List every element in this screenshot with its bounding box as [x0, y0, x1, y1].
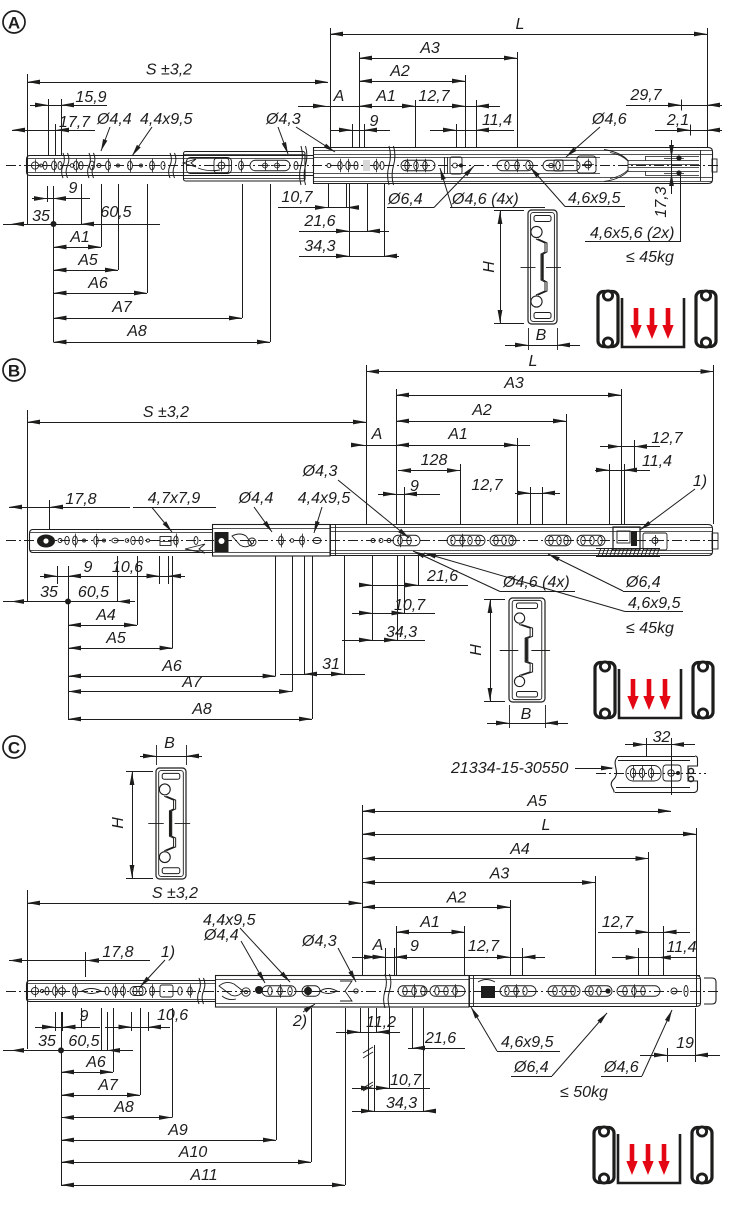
dimension 34,3 (B): [342, 640, 425, 642]
dimension 11,4 (B right): [595, 470, 650, 472]
dimension B (B): [509, 705, 511, 728]
svg-text:Ø4,3: Ø4,3: [302, 463, 338, 480]
dimension 21,6 (C): [408, 1048, 465, 1050]
dimension 11,4 (A): [430, 130, 514, 132]
svg-text:≤ 45kg: ≤ 45kg: [626, 620, 674, 637]
svg-text:35: 35: [38, 1033, 56, 1050]
dimension A8 (B): [68, 719, 312, 721]
svg-text:Ø4,6 (4x): Ø4,6 (4x): [451, 191, 519, 208]
svg-text:2): 2): [292, 1013, 307, 1030]
dimension 11,4 (C right): [612, 957, 697, 959]
rail B middle latch block: [215, 532, 229, 552]
svg-text:10,7: 10,7: [281, 189, 313, 206]
dimension A11 (C): [61, 1185, 345, 1187]
rail C outer slots: [500, 986, 536, 997]
rail C chevron detail: [340, 981, 352, 1001]
dimension H (C): [126, 771, 153, 773]
rail A inner member: [27, 156, 314, 176]
svg-text:21,6: 21,6: [424, 1030, 456, 1047]
svg-text:H: H: [468, 644, 485, 656]
rail B latch wedge: [185, 544, 205, 553]
svg-text:Ø4,3: Ø4,3: [301, 933, 337, 950]
svg-text:A7: A7: [111, 299, 133, 316]
svg-text:19: 19: [676, 1035, 694, 1052]
rail A right spear detail: [604, 150, 628, 182]
extension lines from holes (C): [81, 1008, 83, 1027]
dimension A1 (C): [396, 932, 465, 934]
rail A middle member: [184, 152, 306, 182]
dimension A2 (B): [396, 421, 566, 423]
dimension B (A): [528, 328, 530, 350]
svg-text:B: B: [521, 706, 532, 723]
dimension 10,7 (B): [352, 613, 435, 615]
dimension H (A): [494, 210, 524, 212]
section label C: [3, 736, 25, 758]
rail A outer-member break: [300, 146, 303, 185]
dimension A4 (B): [68, 625, 137, 627]
dimension 17,3 (A): [671, 140, 673, 194]
cross-section view (A): [528, 210, 557, 324]
rail B outer holes: [371, 539, 375, 543]
dimension A4 (C): [362, 858, 649, 860]
svg-text:A1: A1: [69, 229, 90, 246]
rail A inner holes: [31, 162, 38, 169]
svg-text:Ø4,6: Ø4,6: [603, 1059, 639, 1076]
dimension 15,9 (A): [30, 105, 107, 107]
section label A: [3, 11, 25, 33]
svg-text:C: C: [8, 739, 20, 758]
svg-text:L: L: [529, 353, 538, 370]
dimension A7 (C): [61, 1095, 140, 1097]
dimension 31 (B): [280, 674, 365, 676]
svg-text:Ø4,4: Ø4,4: [96, 111, 132, 128]
dimension 32 (C): [625, 744, 695, 746]
dimension A5 (C): [362, 805, 364, 975]
svg-text:4,4x9,5: 4,4x9,5: [140, 111, 193, 128]
svg-text:4,6x9,5: 4,6x9,5: [501, 1034, 554, 1051]
svg-text:B: B: [164, 735, 175, 752]
svg-text:21,6: 21,6: [303, 213, 335, 230]
svg-text:9: 9: [80, 1008, 89, 1025]
rail C middle lever detail: [219, 982, 243, 996]
svg-text:12,7: 12,7: [651, 430, 683, 447]
rail B left end detail: [37, 535, 55, 548]
svg-text:Ø4,6: Ø4,6: [591, 111, 627, 128]
svg-text:34,3: 34,3: [304, 238, 335, 255]
svg-text:L: L: [516, 16, 525, 33]
dimension row A / 9 / 12,7 (C): [352, 957, 545, 959]
svg-text:A2: A2: [389, 63, 410, 80]
rail C middle break: [384, 974, 387, 1008]
cross-section view (C): [156, 768, 186, 879]
svg-text:9: 9: [410, 938, 419, 955]
svg-text:11,2: 11,2: [366, 1014, 396, 1031]
dimension S +-3,2 (B): [27, 410, 29, 602]
svg-text:31: 31: [322, 656, 340, 673]
svg-text:32: 32: [653, 729, 671, 746]
rail B outer member: [331, 525, 713, 556]
svg-text:10,7: 10,7: [394, 597, 426, 614]
svg-text:60,5: 60,5: [100, 204, 131, 221]
rail A middle details: [187, 158, 232, 174]
dimension 21,6 (B): [362, 585, 468, 587]
dimension A2 (A): [359, 81, 465, 83]
section label B: [3, 359, 25, 381]
rail A end tab: [712, 159, 717, 172]
rail A outer holes group 1: [327, 164, 331, 168]
svg-text:A11: A11: [189, 1167, 217, 1184]
svg-text:A5: A5: [105, 630, 126, 647]
dimension L (A): [330, 28, 332, 147]
dimension 34,3 (A): [299, 256, 399, 258]
svg-text:11,4: 11,4: [667, 939, 697, 956]
rail C end clip: [704, 978, 716, 1004]
dimension A8 (C): [61, 1117, 172, 1119]
svg-text:10,7: 10,7: [390, 1072, 422, 1089]
rail C outer member: [469, 975, 700, 977]
dimension 21,6 (A): [299, 231, 389, 233]
dimension 10,7 (A): [278, 207, 359, 209]
svg-text:2,1: 2,1: [666, 112, 689, 129]
load direction icon (A): [598, 292, 618, 347]
svg-text:A: A: [8, 14, 20, 33]
svg-text:9: 9: [370, 113, 379, 130]
rail A release lever detail: [577, 156, 596, 173]
rail B inner member: [30, 530, 213, 553]
dimension row A / A1 (B): [355, 445, 530, 447]
dimension 35 / 60,5 (C): [3, 1050, 133, 1052]
dimension H (B): [484, 599, 505, 601]
extension line with breaks (C): [368, 1008, 370, 1111]
dimension 9 (B top): [378, 494, 440, 496]
dimension 12,7 (B mid): [515, 493, 560, 495]
svg-text:A4: A4: [95, 607, 116, 624]
svg-text:4,6x9,5: 4,6x9,5: [628, 595, 681, 612]
dimension A5 (A): [54, 270, 119, 272]
svg-text:A8: A8: [126, 323, 147, 340]
dimension A2 (C): [362, 907, 510, 909]
dimension 9 (C bottom): [35, 1027, 100, 1029]
svg-text:12,7: 12,7: [602, 914, 634, 931]
svg-text:4,7x7,9: 4,7x7,9: [148, 490, 201, 507]
dimension 2,1 (A): [655, 130, 722, 132]
rail A outer member: [314, 148, 713, 184]
dimension A10 (C): [61, 1162, 311, 1164]
svg-text:21,6: 21,6: [426, 568, 458, 585]
svg-text:Ø4,3: Ø4,3: [265, 111, 301, 128]
svg-text:A: A: [333, 88, 345, 105]
dimension 29,7 (A): [626, 105, 722, 107]
part detail rail (C): [596, 773, 706, 775]
svg-text:S ±3,2: S ±3,2: [146, 62, 192, 79]
rail B end piece: [643, 533, 667, 550]
rail C inner break: [198, 978, 201, 1004]
dimension A3 (A): [359, 52, 361, 147]
svg-text:17,8: 17,8: [65, 491, 96, 508]
rail A hole cluster: [444, 157, 446, 174]
svg-text:4,6x9,5: 4,6x9,5: [568, 190, 621, 207]
label 17,8 (B): [9, 507, 130, 509]
rail B middle member: [213, 525, 331, 557]
svg-text:A1: A1: [419, 914, 440, 931]
dimension 35 / 60,5 (A): [3, 224, 160, 226]
svg-text:1): 1): [693, 473, 707, 490]
dimension 19 (C): [640, 1055, 720, 1057]
dimension A6 (C): [61, 1072, 113, 1074]
dimension 34,3 (C): [352, 1111, 430, 1113]
svg-text:A7: A7: [97, 1077, 119, 1094]
dimension 9 / 10,6 (B): [40, 576, 185, 578]
dimension L (C): [362, 834, 696, 836]
dimension A5 (B): [68, 648, 173, 650]
dimension 9 (A bottom): [32, 198, 90, 200]
rail C inner member: [27, 981, 216, 1002]
svg-text:15,9: 15,9: [75, 89, 106, 106]
svg-text:17,8: 17,8: [102, 944, 133, 961]
dimension A6 (B): [68, 676, 276, 678]
dimension 35 / 60,5 (B): [3, 601, 135, 603]
dimension A7 (A): [54, 318, 243, 320]
svg-text:B: B: [8, 362, 20, 381]
svg-text:Ø6,4: Ø6,4: [513, 1059, 549, 1076]
svg-text:1): 1): [161, 944, 175, 961]
svg-text:A9: A9: [167, 1122, 188, 1139]
svg-text:B: B: [536, 327, 547, 344]
svg-text:A6: A6: [85, 1054, 106, 1071]
svg-text:≤ 50kg: ≤ 50kg: [560, 1084, 608, 1101]
svg-text:L: L: [542, 817, 551, 834]
svg-text:A6: A6: [87, 275, 108, 292]
svg-text:60,5: 60,5: [78, 584, 109, 601]
svg-text:A3: A3: [503, 375, 524, 392]
svg-text:35: 35: [32, 208, 50, 225]
rail B latch box: [613, 527, 640, 550]
svg-text:Ø4,4: Ø4,4: [238, 490, 274, 507]
dimension A3 (C): [362, 882, 595, 884]
rail A inner break marks: [62, 153, 65, 178]
svg-text:12,7: 12,7: [471, 477, 503, 494]
svg-text:H: H: [110, 817, 127, 829]
dimension 11,2 (C): [336, 1032, 400, 1034]
load direction icon (B): [595, 663, 615, 718]
dimension A8 (A): [54, 342, 271, 344]
rail B spring comb: [598, 548, 660, 556]
svg-text:12,7: 12,7: [418, 88, 450, 105]
svg-text:Ø6,4: Ø6,4: [387, 191, 423, 208]
svg-text:A2: A2: [471, 402, 492, 419]
svg-text:17,7: 17,7: [59, 114, 91, 131]
svg-text:A: A: [372, 937, 384, 954]
svg-text:10,6: 10,6: [112, 559, 143, 576]
rail A outer slot 2: [497, 160, 533, 171]
dimension S +-3,2 (A): [27, 74, 29, 224]
svg-text:128: 128: [421, 452, 448, 469]
svg-text:A: A: [371, 426, 383, 443]
dimension 9 (A top): [330, 130, 390, 132]
dimension A9 (C): [61, 1140, 276, 1142]
dimension A1 (A bottom): [54, 247, 102, 249]
rail B lever detail: [232, 534, 252, 547]
rail C latch cluster: [469, 975, 471, 1007]
svg-text:A2: A2: [446, 890, 467, 907]
dimension B (C): [156, 745, 158, 765]
dimension 10,7 (C): [352, 1088, 430, 1090]
rail C centerline: [6, 991, 720, 993]
dimension 17,8 (C): [9, 960, 150, 962]
svg-text:A1: A1: [447, 426, 468, 443]
svg-text:12,7: 12,7: [468, 938, 500, 955]
dimension S +-3,2 (C): [27, 890, 29, 1049]
dimension 17,7 (A): [12, 130, 95, 132]
svg-text:A8: A8: [113, 1099, 134, 1116]
svg-text:60,5: 60,5: [68, 1033, 99, 1050]
dimension 10,6 (C): [105, 1027, 170, 1029]
svg-text:A4: A4: [509, 841, 530, 858]
rail A centerline: [6, 165, 720, 167]
svg-text:35: 35: [40, 584, 58, 601]
dimension A6 (A): [54, 293, 148, 295]
svg-text:11,4: 11,4: [482, 112, 512, 129]
rail B centerline: [6, 540, 720, 542]
dimension L (B): [366, 365, 368, 524]
dimension row A / A1 / 12,7 (A): [298, 106, 500, 108]
rail A outer slot 3: [543, 160, 580, 171]
dimension A3 (B): [396, 389, 398, 524]
svg-text:34,3: 34,3: [386, 1095, 417, 1112]
rail A latch detail: [183, 159, 196, 167]
svg-text:9: 9: [84, 559, 93, 576]
svg-text:H: H: [481, 261, 498, 273]
svg-text:29,7: 29,7: [629, 87, 662, 104]
svg-text:4,4x9,5: 4,4x9,5: [298, 490, 351, 507]
svg-text:11,4: 11,4: [642, 453, 672, 470]
svg-text:34,3: 34,3: [386, 624, 417, 641]
dimension 12,7 (B right): [600, 446, 660, 448]
svg-text:A6: A6: [161, 658, 182, 675]
dimension A7 (B): [68, 691, 292, 693]
dimension 128 (B): [398, 470, 460, 472]
svg-text:A5: A5: [526, 793, 547, 810]
svg-text:21334-15-30550: 21334-15-30550: [450, 760, 569, 777]
svg-text:A7: A7: [181, 674, 203, 691]
cross-section view (B): [509, 598, 545, 702]
svg-text:A3: A3: [419, 40, 440, 57]
svg-text:9: 9: [69, 180, 78, 197]
rail A end holes: [676, 155, 681, 160]
svg-text:Ø6,4: Ø6,4: [625, 574, 661, 591]
rail A outer slot 1: [401, 160, 435, 171]
rail A outer break: [388, 146, 391, 185]
rail C inner holes: [31, 987, 38, 994]
rail B 4,7x7,9 slot detail: [160, 537, 171, 546]
load direction icon (C): [594, 1128, 614, 1183]
svg-text:A8: A8: [191, 701, 212, 718]
svg-text:17,3: 17,3: [653, 186, 670, 217]
svg-text:Ø4,6 (4x): Ø4,6 (4x): [502, 574, 570, 591]
svg-text:A1: A1: [375, 88, 396, 105]
svg-text:A5: A5: [77, 252, 98, 269]
svg-text:A10: A10: [178, 1144, 208, 1161]
rail C middle member: [216, 976, 470, 1008]
svg-text:≤ 45kg: ≤ 45kg: [626, 249, 674, 266]
svg-text:9: 9: [410, 478, 419, 495]
svg-text:S ±3,2: S ±3,2: [143, 404, 189, 421]
svg-text:S ±3,2: S ±3,2: [152, 885, 198, 902]
svg-text:Ø4,4: Ø4,4: [203, 927, 239, 944]
svg-text:4,6x5,6 (2x): 4,6x5,6 (2x): [590, 225, 674, 242]
dimension 12,7 (C right): [598, 932, 690, 934]
svg-text:A3: A3: [489, 866, 510, 883]
